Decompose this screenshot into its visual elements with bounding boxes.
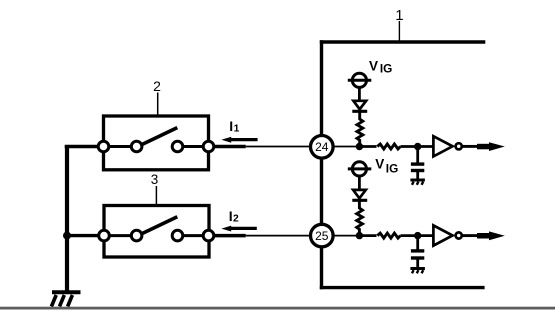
capacitor C1 upper bbox=[411, 147, 424, 179]
current source V_IG lower bbox=[348, 162, 372, 176]
resistor vertical lower bbox=[357, 200, 363, 235]
svg-text:24: 24 bbox=[315, 140, 329, 154]
switch box 3 terminal circles bbox=[99, 230, 214, 241]
switch box 2: rectangle bbox=[104, 116, 209, 170]
wire: thin segment to pin 24 bbox=[246, 146, 313, 148]
wire: thick segment box2 to I1 bbox=[214, 145, 246, 149]
wire: thin segment to pin 25 bbox=[246, 235, 313, 237]
svg-text:IG: IG bbox=[380, 62, 392, 76]
ground: small earth under C1 bbox=[410, 180, 425, 185]
resistor horizontal upper bbox=[377, 144, 400, 149]
wire: pin 25 to junction bbox=[333, 235, 360, 237]
wire: thick segment box3 to I2 bbox=[214, 234, 246, 238]
wire: pin 24 to junction bbox=[333, 146, 360, 148]
wire: rail to switch box 2 bbox=[65, 145, 99, 148]
node: cap junction lower bbox=[414, 232, 421, 239]
wire: junction to resistor lower bbox=[359, 234, 376, 237]
svg-text:I2: I2 bbox=[229, 208, 239, 225]
ground: main earth symbol bbox=[51, 292, 80, 306]
wire: box2 internal left segment bbox=[104, 145, 136, 148]
wire: source to diode upper bbox=[358, 87, 361, 101]
wire: resistor to cap node upper bbox=[400, 145, 433, 148]
svg-text:IG: IG bbox=[386, 162, 398, 176]
wire: box3 internal right segment bbox=[178, 234, 208, 237]
label 3 tick bbox=[155, 186, 157, 204]
IC box 1: bottom edge bbox=[320, 286, 485, 289]
current arrow I1 bbox=[221, 137, 257, 143]
svg-text:25: 25 bbox=[315, 229, 329, 243]
IC box 1: left edge bbox=[320, 40, 323, 289]
switch box 3: rectangle bbox=[104, 206, 209, 258]
output arrow upper bbox=[462, 142, 505, 151]
inverter U2 lower bbox=[433, 225, 461, 245]
wire: source to diode lower bbox=[358, 176, 361, 190]
wire: box2 internal right segment bbox=[178, 145, 208, 148]
output arrow lower bbox=[462, 231, 505, 240]
ground: small earth under C2 bbox=[410, 269, 425, 274]
resistor vertical upper bbox=[357, 111, 363, 146]
resistor horizontal lower bbox=[377, 233, 400, 238]
switch S2 arm bbox=[141, 128, 177, 145]
pin 24 circle bbox=[311, 136, 334, 159]
diode D1 upper bbox=[352, 101, 367, 112]
current arrow I2 bbox=[221, 226, 256, 232]
svg-text:I1: I1 bbox=[229, 118, 239, 134]
diode D2 lower bbox=[352, 190, 367, 200]
wire: resistor to cap node lower bbox=[400, 234, 433, 237]
svg-text:V: V bbox=[375, 157, 384, 172]
current source V_IG upper bbox=[348, 73, 372, 87]
wire: left vertical rail bbox=[65, 147, 69, 293]
wire: box3 internal left segment bbox=[105, 234, 137, 237]
svg-text:2: 2 bbox=[153, 78, 161, 94]
svg-text:3: 3 bbox=[151, 172, 159, 187]
inverter U1 upper bbox=[433, 136, 461, 156]
node: junction upper branch bbox=[356, 143, 363, 150]
wire: rail to switch box 3 bbox=[65, 234, 99, 237]
switch box 2 terminal circles bbox=[98, 141, 214, 152]
label 2 tick bbox=[157, 93, 159, 115]
IC box 1: top edge bbox=[320, 40, 486, 43]
wire: junction to resistor upper bbox=[359, 145, 376, 148]
bottom separator line bbox=[0, 307, 555, 310]
svg-text:V: V bbox=[369, 58, 378, 73]
label 1 tick bbox=[398, 21, 400, 41]
switch S3 arm bbox=[141, 217, 177, 234]
node: cap junction upper bbox=[414, 143, 421, 150]
capacitor C2 lower bbox=[411, 236, 424, 267]
node: junction lower branch bbox=[356, 232, 363, 239]
pin 25 circle bbox=[311, 224, 334, 247]
svg-text:1: 1 bbox=[395, 7, 403, 24]
node: junction rail / lower wire bbox=[63, 232, 71, 240]
